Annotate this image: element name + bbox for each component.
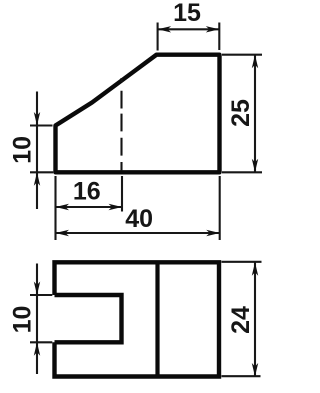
svg-text:10: 10	[9, 136, 37, 164]
dim 10 top extension line top	[30, 294, 52, 296]
dim 40 arrow right	[206, 230, 220, 236]
dim 24 extension line top	[222, 261, 262, 263]
dim 15 extension line left	[157, 23, 159, 51]
dim 40 extension line left	[54, 176, 56, 240]
top view outline	[55, 262, 220, 376]
dim 10 top line	[36, 264, 38, 375]
dim 25 arrow bottom	[252, 159, 258, 173]
dim 10 front line	[36, 92, 38, 210]
dim 15 line	[158, 28, 220, 30]
dim 25 line	[254, 55, 256, 173]
svg-text:24: 24	[227, 306, 255, 334]
top view slot	[55, 295, 122, 342]
dim 25 extension line top	[222, 54, 262, 56]
dim 24 line	[254, 262, 256, 376]
dim 16 arrow right	[109, 204, 123, 210]
svg-text:16: 16	[73, 178, 101, 206]
dim 16 arrow left	[56, 204, 70, 210]
dim 16 extension line right	[121, 176, 123, 212]
dim 10 front extension line top	[30, 124, 53, 126]
dim 10 top extension line bottom	[30, 341, 52, 343]
dim 40 arrow left	[56, 230, 70, 236]
dim 40 line	[56, 232, 220, 234]
dim 15 extension line right	[218, 23, 220, 51]
hidden line (slot edge, dashed)	[120, 78, 122, 171]
top view divider line	[155, 262, 159, 376]
dim 10 top arrow up	[34, 342, 40, 356]
dim 24 extension line bottom	[222, 375, 261, 377]
dim 16 line	[56, 206, 123, 208]
dim 25 extension line bottom	[222, 171, 262, 173]
dim 10 front extension line bottom	[30, 171, 53, 173]
svg-text:25: 25	[227, 99, 255, 127]
dim 15 arrow right	[206, 26, 220, 32]
dim 24 arrow top	[252, 262, 258, 276]
dim 25 arrow top	[252, 55, 258, 68]
dim 24 arrow bottom	[252, 363, 258, 377]
svg-text:15: 15	[173, 0, 201, 27]
front view outline	[56, 55, 220, 173]
dim 15 arrow left	[158, 26, 172, 32]
dim 10 front arrow down	[34, 112, 40, 126]
dim 40 extension line right	[219, 176, 221, 240]
svg-text:10: 10	[9, 306, 37, 334]
dim 10 front arrow up	[34, 172, 40, 186]
svg-text:40: 40	[125, 205, 153, 233]
dim 10 top arrow down	[34, 282, 40, 296]
